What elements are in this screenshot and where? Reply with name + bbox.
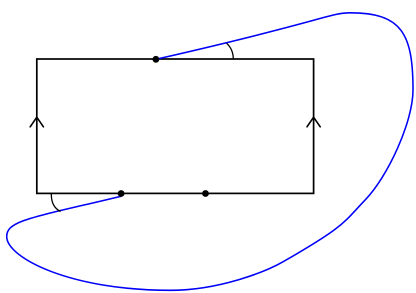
bottom dot 1: [118, 190, 125, 197]
right edge arrow (upward): [307, 117, 320, 127]
left edge arrow (upward): [30, 117, 43, 127]
bottom dot 2: [202, 190, 209, 197]
rectangle (fundamental polygon): [37, 59, 314, 193]
top angle arc: [227, 43, 234, 59]
top dot: [153, 56, 160, 63]
bottom angle arc: [51, 194, 60, 212]
